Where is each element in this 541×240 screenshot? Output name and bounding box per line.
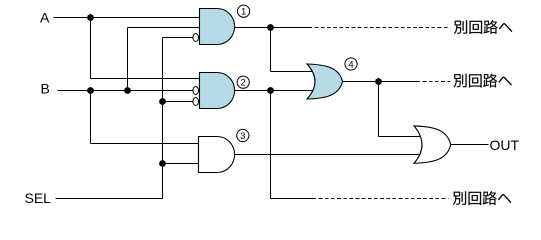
label circle 4 [345,58,357,70]
dashed wire to other circuit 1 [309,27,449,29]
OR gate 5 (2-input, output) [414,126,451,163]
wire AND1 output [235,27,309,29]
AND gate 3 (2-input) [199,137,235,173]
wire SEL horizontal [56,198,163,200]
svg-text:4: 4 [348,59,353,70]
svg-text:1: 1 [241,7,246,18]
junction dot SEL at AND3 input 2 [159,160,166,167]
junction dot on B at x=90 [87,87,94,94]
wire AND2 output to OR4 input 2 [235,90,316,92]
wire A branch down to AND2 input 1 [90,18,92,79]
wire OR4 output branch down to OR5 input 1 [378,82,380,137]
wire SEL vertical riser x=162 [162,38,164,199]
AND gate 1 (3-input, inverted input 3) [200,9,235,45]
AND gate 2 (3-input, inverted inputs 2,3) [200,73,235,109]
dashed wire to other circuit 2 [417,81,451,83]
wire B branch up to AND1 input 2 [127,28,129,91]
wire AND3 output to OR5 input 2 [235,154,423,156]
label circle 1 [238,5,250,17]
wire AND1 output branch down to OR4 input 1 [270,28,272,72]
wire SEL to AND2 input 3 [163,101,194,103]
label to-other-circuit 2 [454,74,512,88]
wire SEL to AND3 input 2 [163,163,200,165]
svg-text:SEL: SEL [25,190,52,206]
junction dot OR4 output [375,78,382,85]
dashed wire to other circuit 3 [313,198,449,200]
junction dot AND1 output [267,24,274,31]
wire bottom to other circuit [271,198,313,200]
label to-other-circuit 1 [454,20,512,34]
label circle 2 [237,76,249,88]
svg-text:OUT: OUT [490,137,520,153]
wire A horizontal [54,17,200,19]
junction dot on A at x=90 [87,14,94,21]
OR gate 4 (2-input) [307,64,343,99]
wire OR4 output [343,81,417,83]
wire AND2 output branch down [270,91,272,199]
inverter bubble AND2 input 2 [193,87,199,95]
svg-text:B: B [41,81,50,97]
inverter bubble AND1 input 3 [193,34,199,42]
wire OR5 output [451,144,489,146]
wire B branch down to AND3 input 1 [90,91,92,144]
svg-text:A: A [40,10,50,26]
junction dot SEL at AND2 input 3 [159,98,166,105]
inverter bubble AND2 input 3 [193,98,199,106]
label circle 3 [237,129,249,141]
junction dot AND2 output [267,87,274,94]
junction dot on B at x=127 [124,87,131,94]
svg-text:2: 2 [241,78,246,89]
wire SEL to AND1 input 3 [163,37,194,39]
wire B horizontal [58,90,194,92]
svg-text:3: 3 [240,131,245,142]
label to-other-circuit 3 [453,191,511,205]
